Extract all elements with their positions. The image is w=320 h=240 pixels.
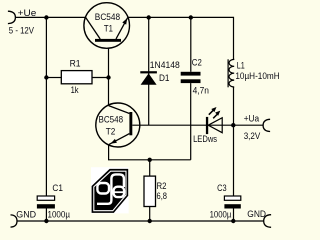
svg-text:GND: GND [16, 209, 36, 219]
wire bottom: GND left to GND right [17, 220, 264, 222]
wire C3 bottom to bottom wire [233, 208, 235, 221]
terminal +Ue [8, 11, 15, 23]
svg-text:3,2V: 3,2V [244, 131, 261, 141]
svg-text:C1: C1 [52, 183, 63, 193]
wire R1 left [46, 77, 61, 79]
node dot LED out [231, 123, 235, 127]
svg-text:LEDws: LEDws [193, 134, 217, 144]
logo glyph g-stem and hook [97, 174, 124, 203]
wire R2 bottom [149, 207, 151, 222]
svg-text:5 - 12V: 5 - 12V [9, 26, 34, 36]
LED LEDws [193, 107, 222, 144]
terminal GND right [264, 215, 271, 228]
wire top left: +Ue terminal to T1 collector [15, 16, 85, 18]
wire R1 right [92, 77, 109, 79]
svg-text:R2: R2 [157, 181, 167, 191]
node dot C2 top [189, 15, 193, 19]
wire mid: T2 base through LED to +Ua [132, 124, 263, 126]
svg-text:BC548: BC548 [99, 115, 124, 125]
wire C2 rail lower to emitter node [190, 83, 192, 160]
wire L1 rail: coil bottom to C3 [233, 87, 235, 196]
node dot R1 right [106, 75, 110, 79]
node dot C3 bottom [231, 219, 235, 223]
logo glyph e-bowl [114, 187, 125, 197]
svg-text:R1: R1 [70, 59, 81, 69]
svg-text:C3: C3 [217, 183, 227, 193]
node dot R2 top [148, 158, 152, 162]
logo glyph e-bar [114, 191, 123, 193]
resistor R1 [61, 59, 92, 95]
wire top right: T1 emitter to L1 top [128, 17, 234, 59]
svg-text:GND: GND [247, 209, 266, 219]
node dot R1 left [44, 75, 48, 79]
wire C2 rail upper [190, 17, 192, 71]
capacitor C2 [181, 57, 209, 95]
transistor T1 [84, 3, 130, 49]
wire left rail upper: top wire down to C1 [45, 17, 47, 196]
node dot R2 bottom [148, 219, 152, 223]
capacitor C1 [37, 183, 70, 219]
logo badge [92, 169, 129, 213]
svg-text:T2: T2 [106, 127, 116, 137]
wire R2 top [149, 160, 151, 176]
svg-text:4,7n: 4,7n [193, 86, 209, 96]
node dot diode top [147, 15, 151, 19]
svg-text:T1: T1 [104, 24, 113, 34]
logo glyph g-bowl [97, 183, 109, 194]
transistor T2 [96, 103, 140, 147]
terminal +Ua [263, 119, 270, 131]
svg-text:L1: L1 [237, 60, 245, 70]
svg-text:C2: C2 [192, 57, 202, 67]
node dot C1 bottom [44, 219, 48, 223]
svg-text:10µH-10mH: 10µH-10mH [235, 71, 279, 81]
svg-text:1k: 1k [71, 85, 79, 95]
inductor L1 [228, 59, 280, 87]
svg-text:+Ue: +Ue [18, 8, 37, 18]
resistor R2 [144, 176, 167, 206]
svg-text:1000µ: 1000µ [210, 209, 232, 219]
svg-text:+Ua: +Ua [244, 113, 260, 123]
wire diode rail [148, 17, 150, 125]
svg-text:BC548: BC548 [95, 12, 120, 22]
node dot top-left rail [44, 15, 48, 19]
svg-text:1000µ: 1000µ [48, 209, 71, 219]
terminal GND left [11, 215, 18, 227]
wire T2 emitter to R2 node [109, 145, 191, 160]
logo backing card [91, 167, 129, 213]
capacitor C3 [210, 183, 241, 219]
svg-text:1N4148: 1N4148 [150, 60, 180, 70]
svg-text:D1: D1 [159, 73, 170, 83]
wire T1 base to T2 collector [108, 48, 110, 105]
wire left rail lower: C1 to bottom wire [45, 208, 47, 221]
diode D1 [140, 60, 180, 85]
svg-text:6,8: 6,8 [157, 191, 168, 201]
